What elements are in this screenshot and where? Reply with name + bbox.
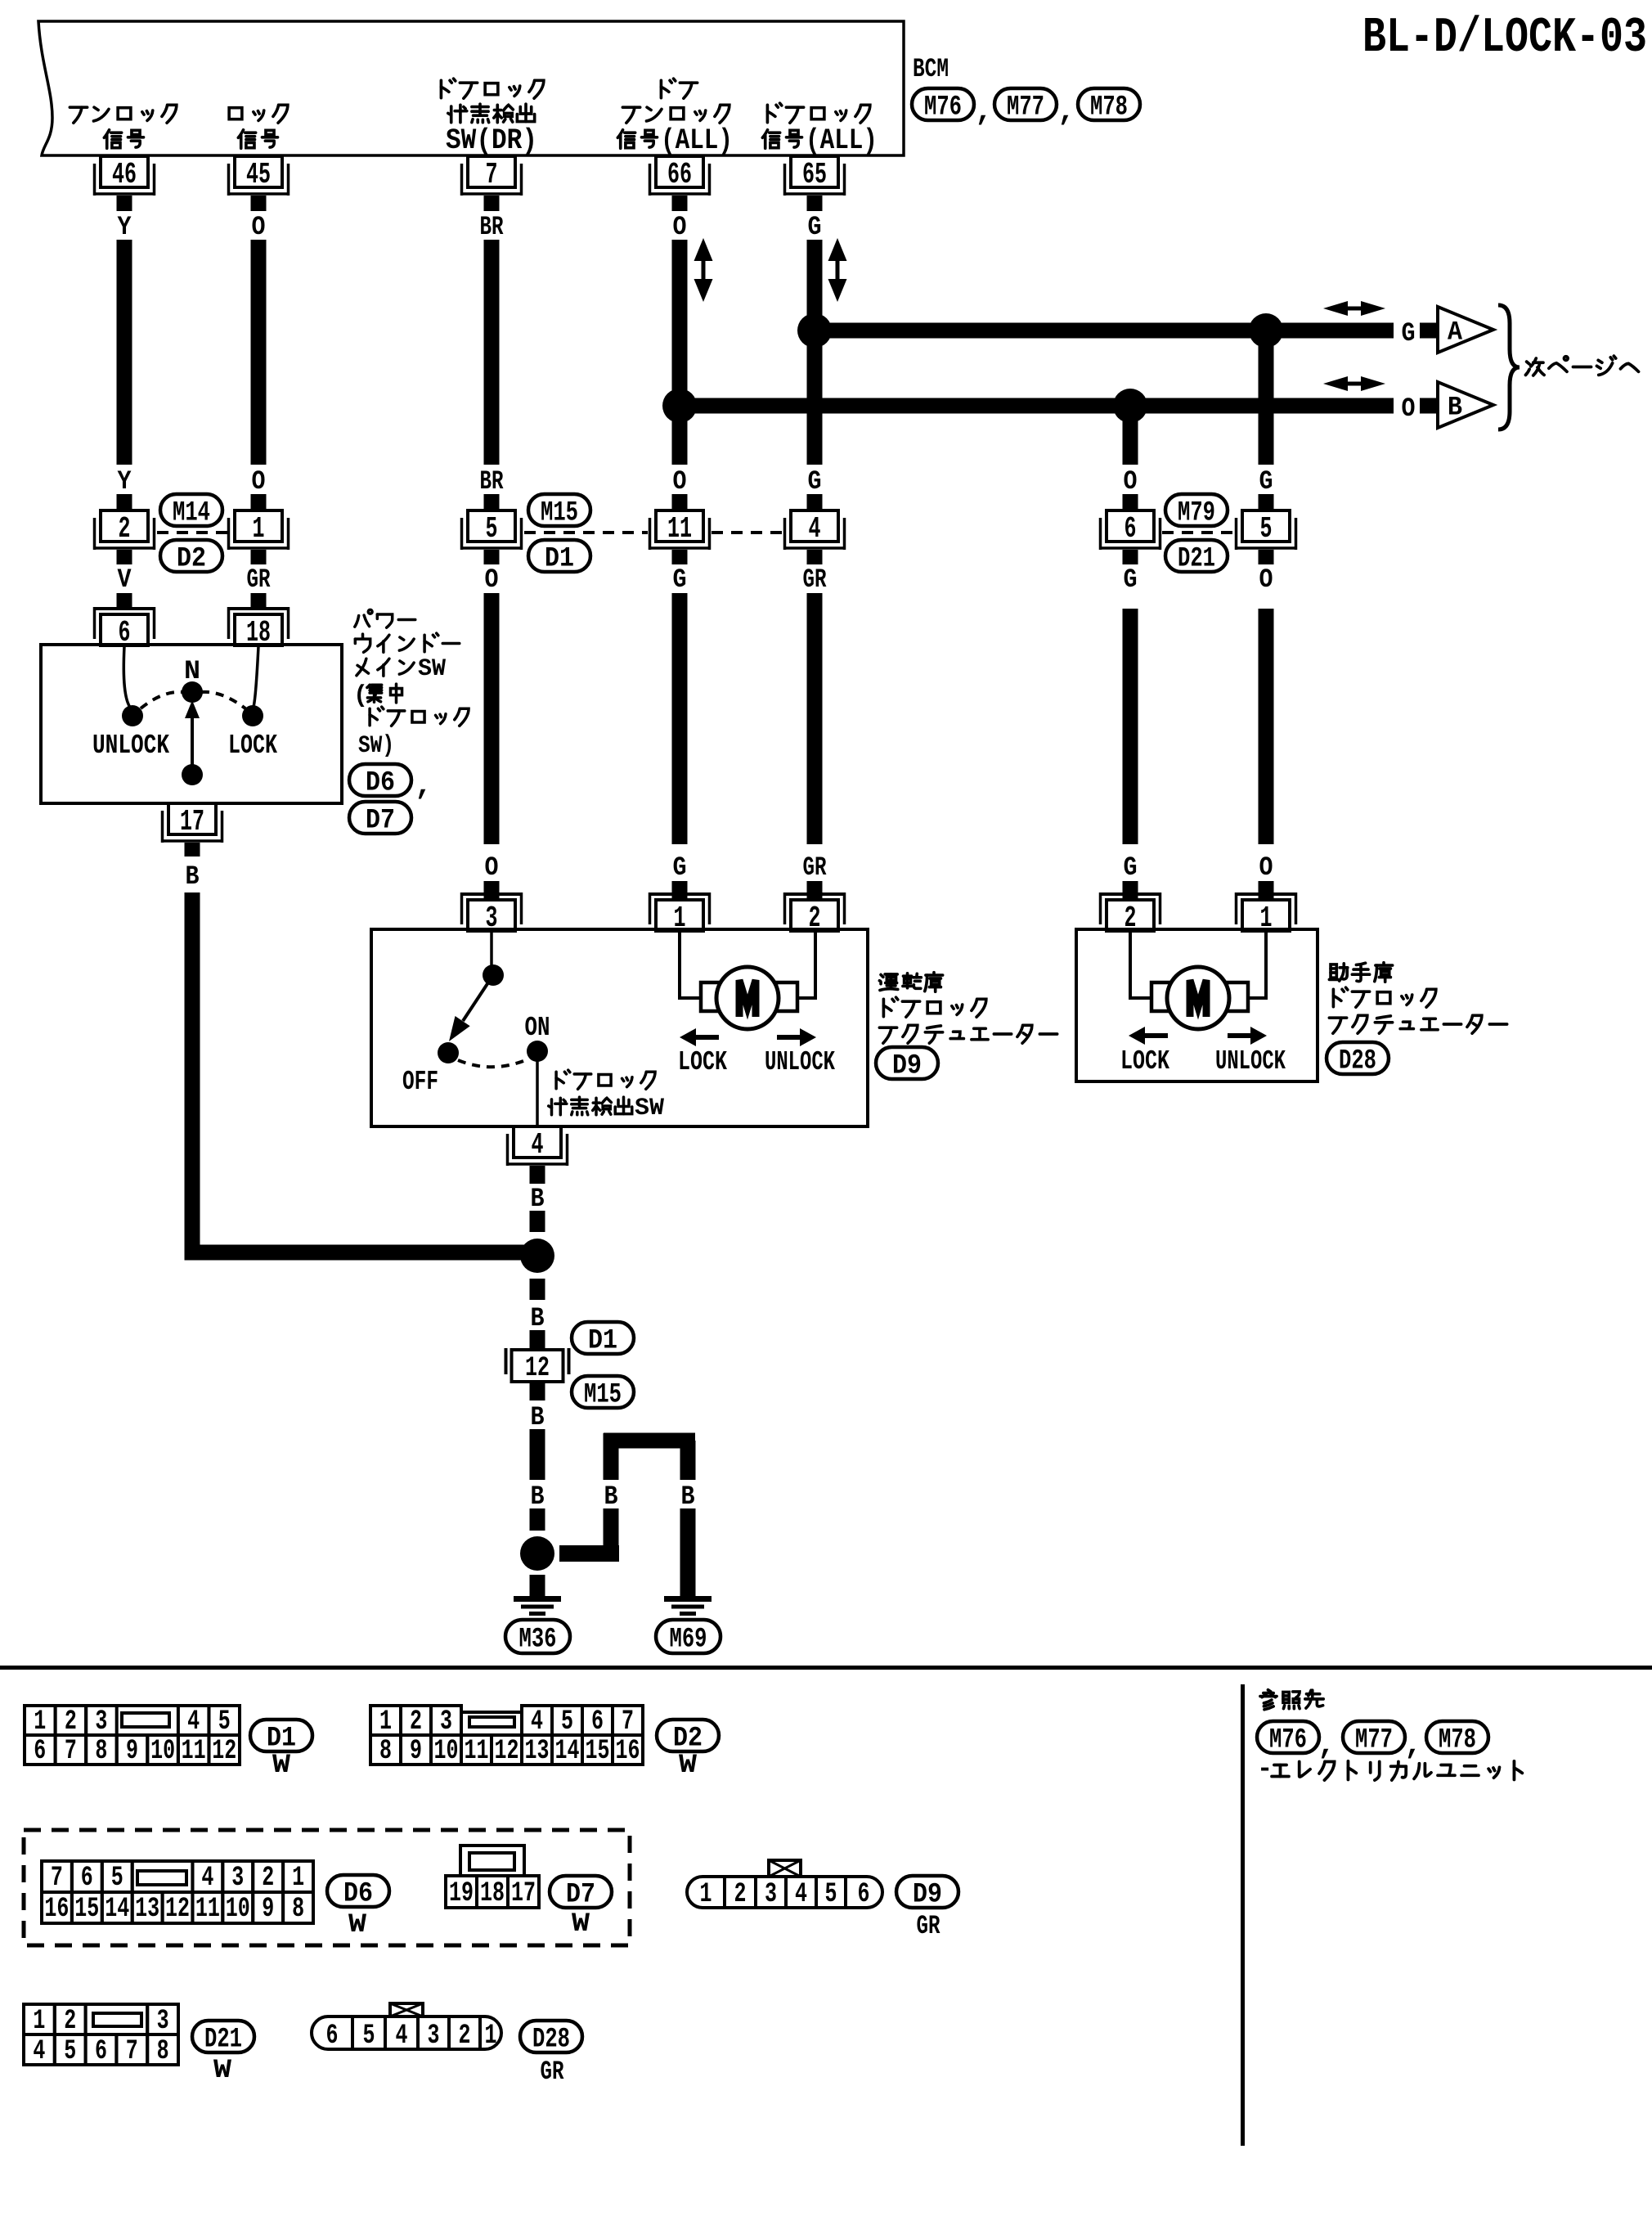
svg-text:3: 3	[95, 1706, 107, 1738]
oval M15 at 12	[572, 1376, 634, 1411]
svg-text:ON: ON	[525, 1013, 550, 1043]
label electrical unit	[1257, 1754, 1522, 1784]
ref oval M77	[1343, 1721, 1405, 1756]
svg-text:66: 66	[667, 158, 692, 191]
connector table D21	[24, 2004, 178, 2067]
SW dashed arc left	[141, 692, 183, 708]
svg-text:4: 4	[809, 512, 821, 546]
driver sw line ON to pin4	[536, 1060, 539, 1126]
svg-text:GR: GR	[917, 1911, 941, 1941]
svg-text:2: 2	[65, 1706, 77, 1738]
svg-text:3: 3	[157, 2006, 169, 2037]
svg-text:12: 12	[495, 1736, 519, 1767]
svg-text:9: 9	[126, 1736, 138, 1767]
actuator pin 1 x=1548	[1235, 892, 1298, 935]
oval D2 bottom	[657, 1720, 719, 1755]
wire label Y above row2	[118, 466, 132, 497]
driver sw line from pin3	[490, 931, 493, 966]
wire label GR above actuators	[803, 852, 828, 883]
svg-text:M78: M78	[1090, 92, 1128, 124]
svg-text:BR: BR	[480, 466, 505, 497]
wire label B below 12	[531, 1402, 545, 1432]
svg-text:SW(DR): SW(DR)	[446, 124, 537, 157]
svg-text:45: 45	[246, 158, 271, 191]
stub below connector pin 11	[672, 550, 688, 564]
driver motor right contact	[776, 982, 797, 1011]
branch left leg upper	[604, 1433, 619, 1480]
svg-text:6: 6	[858, 1879, 870, 1910]
BCM pin 46	[93, 156, 156, 196]
svg-text:O: O	[485, 564, 499, 595]
svg-text:5: 5	[111, 1863, 123, 1894]
wire label G above actuators	[673, 852, 687, 883]
stub below BCM pin 66	[672, 196, 688, 211]
svg-text:3: 3	[440, 1706, 452, 1738]
dashed box	[24, 1830, 630, 1945]
svg-text:D7: D7	[366, 806, 395, 837]
svg-text:,: ,	[1318, 1729, 1336, 1762]
svg-text:(ALL): (ALL)	[806, 124, 878, 157]
wire label BR row1	[480, 212, 505, 242]
svg-text:8: 8	[157, 2036, 169, 2067]
wire label B pin17	[186, 861, 200, 892]
wire label GR below row2	[803, 564, 828, 595]
comma after D6	[415, 769, 433, 803]
passenger name line1	[1329, 963, 1392, 982]
stub above connector pin 2 col	[117, 494, 132, 510]
driver LOCK arrow	[680, 1028, 719, 1046]
svg-text:12: 12	[165, 1894, 190, 1925]
wire Y col1	[117, 240, 132, 465]
SW name line2	[355, 633, 459, 652]
oval D1 mid	[528, 540, 590, 575]
svg-text:3: 3	[231, 1863, 244, 1894]
ref comma 1	[1318, 1729, 1336, 1762]
svg-text:B: B	[531, 1481, 545, 1512]
svg-text:11: 11	[667, 512, 692, 546]
svg-text:B: B	[531, 1303, 545, 1333]
wire G col5	[807, 240, 823, 465]
svg-text:5: 5	[363, 2021, 375, 2052]
driver pin 4	[506, 1126, 569, 1166]
SW lower dot	[182, 764, 203, 785]
BCM pin 65	[783, 156, 846, 196]
driver sw dashed arc	[458, 1059, 527, 1067]
wire label B below pin4	[531, 1184, 545, 1214]
dashed link 6-5	[1162, 531, 1233, 534]
stub below connector pin 2	[117, 550, 132, 564]
svg-text:O: O	[1259, 564, 1273, 595]
svg-text:B: B	[1448, 393, 1462, 423]
stub above conn12	[530, 1330, 545, 1350]
label W D21	[213, 2055, 232, 2085]
svg-text:SW: SW	[635, 1095, 664, 1122]
wire label Y row1	[118, 212, 132, 242]
stub to SW pin 18	[251, 593, 267, 609]
wire label O row1	[673, 212, 687, 242]
wire label O above actuators	[485, 852, 499, 883]
wire label V below row2	[118, 564, 132, 595]
svg-text:11: 11	[195, 1894, 220, 1925]
wire label O above actuators	[1259, 852, 1273, 883]
label W D2	[679, 1750, 698, 1780]
double arrow col5	[828, 238, 847, 302]
svg-text:5: 5	[1260, 512, 1273, 546]
bus G horizontal	[815, 323, 1394, 339]
svg-text:G: G	[1259, 466, 1273, 497]
keying xbox D28	[390, 2003, 423, 2016]
svg-text:1: 1	[292, 1863, 304, 1894]
oval D9 side	[876, 1047, 938, 1082]
oval D6	[349, 764, 411, 799]
svg-text:2: 2	[119, 512, 131, 546]
passenger motor right contact	[1227, 982, 1248, 1011]
stub below BCM pin 45	[251, 196, 267, 211]
svg-text:4: 4	[531, 1706, 543, 1738]
stub to actuator pin x=1382	[1123, 881, 1138, 900]
connector oval M77	[994, 88, 1057, 124]
svg-text:10: 10	[150, 1736, 175, 1767]
svg-text:D6: D6	[366, 768, 395, 799]
svg-text:1: 1	[485, 2021, 497, 2052]
wire long col x=831	[672, 593, 688, 844]
bus O stub	[1420, 398, 1438, 414]
wire B lower	[530, 1508, 545, 1531]
driver sw name line2	[549, 1095, 664, 1122]
stub above connector pin 5 col	[484, 494, 500, 510]
label W D7	[572, 1909, 590, 1939]
svg-text:GR: GR	[247, 564, 272, 595]
driver motor M	[739, 980, 756, 1017]
svg-text:LOCK: LOCK	[228, 731, 277, 761]
driver motor wire left	[680, 931, 703, 998]
svg-text:O: O	[1402, 393, 1416, 424]
connector table D7	[446, 1846, 539, 1909]
dashed link M14-D2	[157, 531, 228, 534]
svg-text:M15: M15	[541, 498, 578, 529]
svg-text:10: 10	[226, 1894, 250, 1925]
triangle B to next page	[1438, 382, 1493, 428]
svg-text:13: 13	[135, 1894, 159, 1925]
actuator pin 3 x=601	[460, 892, 523, 935]
svg-text:-: -	[1257, 1754, 1273, 1784]
svg-text:D9: D9	[913, 1880, 942, 1911]
svg-text:1: 1	[34, 1706, 46, 1738]
stub below connector pin 4	[807, 550, 823, 564]
passenger name line2	[1333, 987, 1435, 1007]
passenger motor circle	[1167, 967, 1229, 1029]
branch horizontal to dot	[559, 1545, 619, 1562]
connector pin box 4	[783, 510, 846, 550]
oval D6 bottom	[327, 1875, 389, 1910]
passenger label LOCK	[1120, 1046, 1169, 1077]
oval M15	[528, 494, 590, 529]
svg-text:D7: D7	[566, 1880, 595, 1911]
branch top bar	[604, 1433, 695, 1449]
svg-text:5: 5	[218, 1706, 231, 1738]
svg-text:G: G	[808, 466, 822, 497]
svg-text:7: 7	[126, 2036, 138, 2067]
connector D9 cells	[687, 1877, 882, 1910]
svg-text:18: 18	[480, 1878, 505, 1909]
svg-text:D9: D9	[892, 1051, 922, 1082]
stub below connector pin 5	[1259, 550, 1274, 564]
svg-text:SW): SW)	[358, 732, 394, 760]
curve pin6 to UNLOCK	[123, 646, 131, 708]
junction dot B upper	[520, 1239, 554, 1273]
wire G col7 vertical	[1259, 330, 1274, 465]
svg-text:4: 4	[532, 1128, 544, 1162]
svg-text:M69: M69	[670, 1625, 707, 1656]
wire O col2	[251, 240, 267, 465]
connector oval M76	[912, 88, 974, 124]
driver sw OFF dot	[438, 1042, 459, 1063]
svg-text:19: 19	[449, 1878, 474, 1909]
label W D1	[272, 1750, 291, 1780]
svg-text:7: 7	[51, 1863, 63, 1894]
svg-text:M76: M76	[924, 92, 962, 124]
driver label UNLOCK	[765, 1047, 835, 1077]
label door unlock line3	[617, 124, 733, 157]
wire label G below row2	[673, 564, 687, 595]
ground oval M69	[656, 1620, 721, 1656]
svg-text:,: ,	[415, 769, 433, 803]
curve pin18 to LOCK	[254, 646, 258, 707]
wire B dash2	[530, 1279, 545, 1300]
driver motor left contact	[701, 982, 722, 1011]
svg-text:D2: D2	[177, 544, 206, 575]
svg-text:O: O	[252, 212, 266, 242]
wire label O below row2	[485, 564, 499, 595]
SW dot LOCK	[242, 705, 263, 726]
stub to actuator pin x=1548	[1259, 881, 1274, 900]
svg-text:7: 7	[486, 158, 498, 191]
oval D7 side	[349, 802, 411, 837]
wire B mid	[530, 1429, 545, 1480]
branch right leg lower	[680, 1508, 696, 1596]
connector table D2	[370, 1706, 643, 1767]
oval D2 mid	[160, 540, 222, 575]
label door lock all line2	[762, 124, 878, 157]
label door lock sw line1	[441, 79, 543, 98]
driver sw name line1	[556, 1070, 655, 1089]
oval M79	[1165, 494, 1228, 529]
driver name line1	[879, 973, 942, 992]
SW dot UNLOCK	[122, 705, 143, 726]
double arrow bus O	[1323, 376, 1385, 391]
connector pin box 11	[649, 510, 712, 550]
label GR D28	[541, 2057, 565, 2087]
svg-text:G: G	[1124, 852, 1138, 883]
passenger LOCK arrow	[1129, 1027, 1168, 1045]
ground symbol M36	[514, 1596, 561, 1616]
svg-text:SW: SW	[418, 655, 446, 683]
svg-text:UNLOCK: UNLOCK	[1215, 1046, 1286, 1077]
BCM pin 66	[649, 156, 712, 196]
svg-text:8: 8	[292, 1894, 304, 1925]
wire label BR above row2	[480, 466, 505, 497]
junction dot G at col5	[797, 313, 832, 348]
svg-text:M77: M77	[1007, 92, 1044, 124]
svg-text:G: G	[673, 852, 687, 883]
ground symbol M69	[664, 1596, 712, 1616]
svg-text:2: 2	[64, 2006, 76, 2037]
svg-text:LOCK: LOCK	[678, 1047, 727, 1077]
passenger motor wire right	[1246, 931, 1266, 998]
driver sw arrow line	[449, 975, 493, 1041]
svg-text:M77: M77	[1355, 1725, 1393, 1756]
svg-text:1: 1	[379, 1706, 392, 1738]
wire O col4	[672, 240, 688, 465]
svg-text:5: 5	[64, 2036, 76, 2067]
svg-text:8: 8	[95, 1736, 107, 1767]
BCM pin 45	[227, 156, 290, 196]
connector pin box 5	[460, 510, 523, 550]
wire long col x=1548	[1259, 609, 1274, 844]
stub below connector pin 6	[1123, 550, 1138, 564]
svg-text:4: 4	[187, 1706, 200, 1738]
svg-text:7: 7	[65, 1736, 77, 1767]
svg-text:OFF: OFF	[402, 1067, 438, 1097]
wire label G above actuators	[1124, 852, 1138, 883]
svg-text:,: ,	[1057, 95, 1075, 128]
svg-text:W: W	[348, 1909, 367, 1940]
driver motor wire right	[795, 931, 815, 998]
actuator pin 2 x=996	[783, 892, 846, 935]
svg-text:BCM: BCM	[913, 54, 949, 84]
svg-text:G: G	[673, 564, 687, 595]
label unlock signal line2	[104, 130, 143, 148]
junction dot B lower	[520, 1536, 554, 1571]
stub below BCM pin 65	[807, 196, 823, 211]
wire label GR below row2	[247, 564, 272, 595]
vertical separator	[1241, 1684, 1245, 2146]
wire label O above row2	[252, 466, 266, 497]
svg-text:B: B	[531, 1402, 545, 1432]
svg-text:15: 15	[586, 1736, 610, 1767]
svg-text:,: ,	[975, 95, 993, 128]
svg-text:M36: M36	[519, 1625, 557, 1656]
bus O label O	[1402, 393, 1416, 424]
svg-text:7: 7	[622, 1706, 634, 1738]
label door lock all line1	[767, 103, 869, 123]
stub below connector pin 5	[484, 550, 500, 564]
svg-text:BR: BR	[480, 212, 505, 242]
stub to actuator pin x=996	[807, 881, 823, 900]
svg-text:D28: D28	[532, 2025, 570, 2056]
dashed link 5-11	[524, 531, 648, 534]
comma after M77	[1057, 95, 1075, 128]
svg-text:14: 14	[555, 1736, 580, 1767]
wire label B col main	[531, 1481, 545, 1512]
bus O horizontal	[680, 398, 1394, 414]
stub above connector pin 4 col	[807, 494, 823, 510]
branch right leg upper	[680, 1441, 696, 1480]
label BCM	[913, 54, 949, 84]
svg-text:O: O	[673, 212, 687, 242]
horizontal separator	[0, 1666, 1652, 1670]
junction dot O at col6	[1113, 389, 1147, 423]
actuator pin 1 x=831	[649, 892, 712, 935]
svg-text:B: B	[531, 1184, 545, 1214]
connector pin box 5	[1235, 510, 1298, 550]
wire label O below row2	[1259, 564, 1273, 595]
driver UNLOCK arrow	[777, 1028, 816, 1046]
label door lock sw line2	[448, 104, 535, 122]
svg-text:D1: D1	[588, 1326, 617, 1357]
ref oval M78	[1426, 1721, 1488, 1756]
stub below pin4	[530, 1166, 545, 1184]
svg-text:M15: M15	[584, 1380, 622, 1411]
passenger name line3	[1329, 1015, 1506, 1033]
svg-text:4: 4	[396, 2021, 408, 2052]
svg-text:W: W	[679, 1750, 698, 1780]
svg-text:D6: D6	[343, 1879, 373, 1910]
svg-text:W: W	[572, 1909, 590, 1939]
svg-text:UNLOCK: UNLOCK	[765, 1047, 835, 1077]
double arrow col4	[694, 238, 713, 302]
svg-text:15: 15	[74, 1894, 99, 1925]
SW pin 17	[161, 803, 224, 843]
svg-text:16: 16	[616, 1736, 640, 1767]
SW dashed arc right	[201, 692, 245, 708]
keying xbox D9	[769, 1860, 801, 1877]
svg-text:6: 6	[34, 1736, 46, 1767]
connector table D1	[25, 1706, 240, 1767]
label door unlock line1	[661, 79, 697, 98]
svg-text:M14: M14	[173, 498, 210, 529]
svg-text:6: 6	[95, 2036, 107, 2067]
comma after M76	[975, 95, 993, 128]
svg-text:D21: D21	[204, 2025, 242, 2056]
connector D28 cells	[312, 2016, 501, 2052]
stub below conn12	[530, 1382, 545, 1400]
branch left leg lower	[604, 1508, 619, 1546]
svg-text:11: 11	[465, 1736, 489, 1767]
svg-text:O: O	[485, 852, 499, 883]
wire label O above row2	[1124, 466, 1138, 497]
driver sw label OFF	[402, 1067, 438, 1097]
ref comma 2	[1404, 1729, 1422, 1762]
connector oval M78	[1078, 88, 1140, 124]
svg-text:O: O	[673, 466, 687, 497]
label reference	[1260, 1690, 1323, 1710]
stub above connector pin 6 col	[1123, 494, 1138, 510]
wire label B above 12	[531, 1303, 545, 1333]
svg-text:17: 17	[511, 1878, 536, 1909]
driver sw ON dot	[527, 1041, 548, 1062]
driver label LOCK	[678, 1047, 727, 1077]
svg-text:5: 5	[825, 1879, 837, 1910]
svg-text:8: 8	[379, 1736, 392, 1767]
label unlock signal line1	[70, 105, 176, 123]
SW dot N	[182, 681, 203, 703]
svg-text:Y: Y	[118, 212, 132, 242]
svg-text:M78: M78	[1439, 1725, 1476, 1756]
wire label B branch right	[681, 1481, 695, 1512]
svg-text:3: 3	[765, 1879, 777, 1910]
junction dot O at col4	[662, 389, 697, 423]
svg-text:4: 4	[201, 1863, 213, 1894]
svg-text:4: 4	[33, 2036, 45, 2067]
SW arrow up	[185, 700, 200, 775]
svg-text:3: 3	[428, 2021, 440, 2052]
stub to actuator pin x=831	[672, 881, 688, 900]
passenger UNLOCK arrow	[1228, 1027, 1267, 1045]
svg-text:LOCK: LOCK	[1120, 1046, 1169, 1077]
wire long col x=1382	[1123, 609, 1138, 844]
SW name line3	[357, 655, 446, 683]
